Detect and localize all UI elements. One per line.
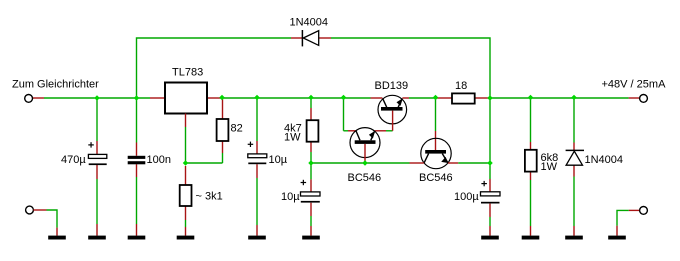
svg-text:100µ: 100µ xyxy=(454,191,479,203)
main rail red lead segments xyxy=(33,97,639,99)
wire BC546a emitter to BD139 base xyxy=(375,130,393,132)
junction node main rail at 10u xyxy=(254,95,260,101)
ground (10u) xyxy=(248,236,266,240)
lower-left terminal xyxy=(26,206,34,214)
junction node main rail at 1N4004 xyxy=(571,95,577,101)
resistor R2 82 xyxy=(217,119,229,141)
capacitor C4 10u column wire xyxy=(310,163,312,236)
resistor R3 4k7 column wire xyxy=(310,98,312,163)
svg-text:1N4004: 1N4004 xyxy=(585,154,624,166)
svg-text:Zum Gleichrichter: Zum Gleichrichter xyxy=(12,79,99,91)
junction node lower rail at 4k7/10u xyxy=(308,160,314,166)
ground (right terminal) xyxy=(608,236,626,240)
svg-text:470µ: 470µ xyxy=(61,154,86,166)
ground (1N4004) xyxy=(565,236,583,240)
junction node main rail at 82 xyxy=(219,95,225,101)
capacitor C5 100u xyxy=(481,192,501,204)
wire top bypass rail xyxy=(137,38,491,98)
svg-text:82: 82 xyxy=(231,123,243,135)
wire lower rail xyxy=(311,162,490,164)
wire output riser column xyxy=(489,98,491,236)
svg-text:~ 3k1: ~ 3k1 xyxy=(196,191,223,203)
ground (6k8) xyxy=(522,236,540,240)
junction node lower rail at output riser xyxy=(487,160,493,166)
svg-text:18: 18 xyxy=(455,80,467,92)
capacitor C4 10u xyxy=(301,192,321,203)
lower-right terminal xyxy=(640,207,648,215)
capacitor C1 470u xyxy=(88,154,106,165)
capacitor C2 100n column wire xyxy=(136,98,138,236)
svg-text:1N4004: 1N4004 xyxy=(290,17,329,29)
diode D1 1N4004 (top) xyxy=(302,30,318,46)
wire main rail y=98 xyxy=(44,97,629,99)
regulator U1 TL783 xyxy=(165,83,207,114)
svg-text:10µ: 10µ xyxy=(281,191,300,203)
C1 plus sign xyxy=(88,142,94,147)
resistor R2 82 lead xyxy=(222,98,224,119)
C3 plus sign xyxy=(248,142,254,147)
output terminal +48V xyxy=(640,95,648,103)
junction node main rail at 470u xyxy=(94,95,100,101)
wire lower-right terminal to ground xyxy=(617,210,639,235)
diode D2 1N4004 column wire xyxy=(573,98,575,236)
svg-text:1W: 1W xyxy=(284,131,301,143)
transistor Q3 BC546 (right) xyxy=(421,98,451,169)
diode D1 leads xyxy=(291,37,331,39)
junction node main rail at 4k7 xyxy=(308,95,314,101)
resistor R4 18 xyxy=(452,93,475,103)
wire BC546a collector riser xyxy=(344,98,357,131)
junction node lower rail at BC546a base xyxy=(362,160,368,166)
junction node main rail at 100n riser xyxy=(134,95,140,101)
svg-text:100n: 100n xyxy=(147,154,171,166)
svg-text:BD139: BD139 xyxy=(375,80,409,92)
resistor R5 6k8 1W xyxy=(525,150,537,172)
svg-text:+48V / 25mA: +48V / 25mA xyxy=(602,79,667,91)
ground (3k1) xyxy=(177,236,195,240)
ground (left terminal) xyxy=(48,236,66,240)
C4 plus sign xyxy=(301,180,307,185)
diode D2 1N4004 (vertical) xyxy=(566,150,584,165)
junction node main rail at BC546a riser xyxy=(341,95,347,101)
resistor R1 3k1 column leads xyxy=(185,166,187,220)
C5 plus sign xyxy=(481,181,487,186)
U1 ADJ pin lead xyxy=(185,114,187,164)
svg-text:10µ: 10µ xyxy=(269,154,288,166)
resistor R5 6k8 column wire xyxy=(530,98,532,236)
svg-text:TL783: TL783 xyxy=(172,67,203,79)
transistor Q2 BC546 (left) xyxy=(350,128,380,161)
capacitor C2 100n xyxy=(128,156,146,165)
transistor Q1 BD139 xyxy=(378,95,407,131)
input terminal (Zum Gleichrichter) xyxy=(25,95,33,103)
ground (10u second) xyxy=(302,236,320,240)
resistor R3 4k7 1W xyxy=(307,120,319,142)
junction node lower rail at 3k1 xyxy=(183,160,189,166)
junction node main rail at output riser xyxy=(487,95,493,101)
ground (470u) xyxy=(88,236,106,240)
svg-text:1W: 1W xyxy=(541,161,558,173)
wire adj lower rail xyxy=(186,141,223,163)
junction node main rail at 6k8 xyxy=(528,95,534,101)
resistor R1 ~3k1 xyxy=(180,185,192,206)
ground (100n) xyxy=(128,236,146,240)
svg-text:BC546: BC546 xyxy=(348,172,382,184)
wire lower-left terminal to ground xyxy=(33,210,57,236)
svg-text:BC546: BC546 xyxy=(419,172,453,184)
capacitor C3 10u xyxy=(248,154,267,164)
junction node main rail at BC546b base xyxy=(433,95,439,101)
capacitor C1 470u column wire xyxy=(96,98,98,236)
capacitor C3 10u column wire xyxy=(256,98,258,236)
ground (100u) xyxy=(481,236,499,240)
